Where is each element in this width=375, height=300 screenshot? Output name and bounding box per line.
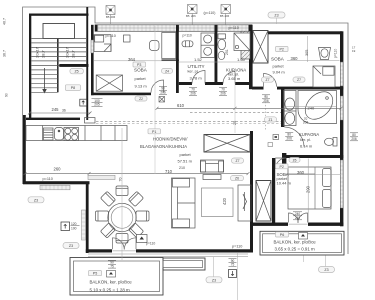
svg-text:245: 245	[52, 107, 60, 112]
stacked label kupaona2 inner	[303, 117, 309, 125]
wall living bottom left segment	[86, 249, 112, 252]
side table living	[203, 175, 221, 180]
TV board living	[238, 185, 251, 221]
svg-text:parket: parket	[180, 152, 192, 157]
svg-text:6.14 m: 6.14 m	[300, 144, 313, 149]
stacked label below living	[229, 259, 237, 267]
wall corridor top (under utility+bath1)	[179, 82, 192, 85]
wall soba3 bottom	[250, 223, 288, 226]
sofa living	[172, 178, 196, 228]
svg-text:28,7: 28,7	[41, 49, 46, 58]
vestibule wall	[59, 64, 88, 67]
svg-text:SOBA: SOBA	[271, 57, 285, 62]
washbasins kupaona2	[284, 91, 297, 126]
bed soba3	[288, 167, 331, 209]
kitchen sink	[55, 128, 64, 141]
door soba3 top entry	[275, 158, 286, 169]
svg-text:Z6: Z6	[235, 177, 239, 181]
marker box dining door	[137, 235, 148, 243]
marker Z6 soba3	[289, 158, 300, 163]
svg-text:251: 251	[225, 49, 229, 55]
threshold lines in door gaps	[113, 224, 308, 251]
dining chairs	[96, 186, 150, 243]
toilet bath1	[218, 34, 226, 50]
extension line dining vertical	[121, 128, 123, 260]
wall right exterior with windows	[340, 31, 343, 226]
svg-text:HODNIK/DNEVNI/: HODNIK/DNEVNI/	[153, 136, 188, 141]
svg-text:20x17: 20x17	[65, 46, 70, 58]
marker Z7 corridor pair	[262, 77, 306, 82]
svg-text:parket: parket	[135, 76, 147, 81]
label balkon left	[89, 271, 133, 293]
balcony right	[260, 231, 344, 255]
svg-text:UTILITY: UTILITY	[188, 64, 205, 69]
svg-text:Z7: Z7	[297, 78, 301, 82]
toilet kupaona2	[325, 138, 338, 147]
dining table	[108, 203, 136, 231]
svg-text:Z4: Z4	[165, 69, 169, 73]
stair treads upper both flights	[31, 38, 86, 65]
corner bathtub kupaona2	[298, 86, 338, 124]
extension line Z3 top	[276, 18, 278, 24]
marker Z3 left	[28, 197, 44, 203]
svg-text:90: 90	[5, 93, 9, 97]
svg-text:206: 206	[190, 92, 196, 96]
svg-text:P8: P8	[71, 86, 75, 90]
label kupaona2	[299, 106, 319, 149]
svg-text:p=110: p=110	[106, 34, 116, 38]
svg-text:120: 120	[71, 222, 77, 226]
wall bedroom1 bottom	[91, 93, 151, 96]
svg-text:(p=110): (p=110)	[204, 11, 216, 15]
svg-text:205: 205	[94, 103, 100, 107]
svg-text:305: 305	[305, 50, 309, 56]
label balkon right	[274, 232, 317, 252]
label kupaona1	[226, 67, 246, 80]
svg-text:Z3: Z3	[34, 198, 38, 202]
svg-text:420: 420	[222, 197, 227, 205]
svg-text:B5: B5	[220, 14, 224, 18]
marker P8 vestibule	[65, 85, 80, 91]
svg-text:28,7: 28,7	[71, 49, 76, 58]
wardrobe soba2	[253, 31, 268, 64]
svg-text:P2: P2	[279, 48, 283, 52]
chimney symbol 3	[221, 5, 231, 26]
wall stair-block top	[29, 14, 89, 16]
label soba2	[271, 47, 298, 75]
svg-text:Z6: Z6	[293, 158, 297, 162]
marker Z5 vestibule	[70, 68, 84, 73]
window hatch on dining left wall	[82, 210, 86, 240]
svg-text:P5: P5	[93, 272, 97, 276]
marker box kupaona2 door corridor	[273, 135, 279, 140]
wall kupaona2 bottom / soba3 top	[284, 155, 343, 158]
svg-text:p=110: p=110	[183, 34, 192, 38]
svg-text:1.65: 1.65	[237, 57, 246, 62]
svg-text:10.44 m: 10.44 m	[277, 180, 292, 185]
kitchen fridge hatched	[44, 128, 54, 140]
door soba2	[264, 74, 277, 87]
bed soba2	[313, 66, 335, 87]
step marker left 120/100	[61, 222, 80, 231]
svg-text:p=110: p=110	[334, 49, 338, 58]
dim line kupaona2 240	[284, 106, 336, 108]
door size labels corridor	[159, 86, 358, 220]
stair middle wall	[57, 39, 59, 93]
balcony left shallow wing	[163, 258, 205, 270]
balcony door living double	[113, 238, 137, 250]
svg-text:p=110: p=110	[229, 26, 239, 30]
svg-text:P6: P6	[280, 233, 284, 237]
svg-text:19: 19	[352, 49, 356, 53]
wall soba2 bottom	[252, 87, 264, 90]
sill lines below living bottom wall	[88, 254, 248, 257]
svg-text:BLAGAVAONA/KUHINJA: BLAGAVAONA/KUHINJA	[140, 144, 187, 149]
wall left of dining (lower)	[86, 184, 89, 254]
svg-text:240: 240	[295, 216, 301, 220]
outer thin boundary	[23, 7, 348, 254]
svg-text:Z7: Z7	[266, 78, 270, 82]
svg-text:Z7: Z7	[236, 159, 240, 163]
svg-text:3.65 x 0.25 = 0.91 m: 3.65 x 0.25 = 0.91 m	[275, 247, 315, 252]
internal dim lines	[94, 36, 341, 222]
svg-text:360: 360	[297, 170, 305, 175]
svg-text:Z3: Z3	[69, 244, 73, 248]
wall bottom-left with window	[23, 181, 90, 184]
svg-text:B5: B5	[106, 15, 110, 19]
svg-text:206: 206	[303, 121, 309, 125]
wall utility left	[176, 25, 179, 93]
top window band x95-252	[95, 25, 252, 32]
label soba1	[128, 57, 148, 89]
svg-text:40.7: 40.7	[3, 18, 7, 25]
wall stair-block right	[86, 7, 88, 120]
dashed ceiling line short	[190, 112, 281, 114]
svg-text:KUPAONA: KUPAONA	[299, 132, 319, 137]
svg-text:206: 206	[225, 14, 230, 18]
door bath1	[223, 72, 235, 84]
svg-text:Z2: Z2	[139, 97, 143, 101]
svg-text:1.52: 1.52	[194, 57, 203, 62]
svg-text:210: 210	[179, 166, 185, 170]
svg-text:36.7: 36.7	[3, 50, 7, 57]
wall entry door recess	[85, 118, 96, 123]
svg-text:240: 240	[308, 106, 315, 111]
shower bath1	[234, 33, 250, 51]
marker Z1 corridor	[265, 117, 277, 122]
svg-text:206: 206	[191, 14, 196, 18]
svg-text:20x17: 20x17	[35, 46, 40, 58]
svg-text:360: 360	[291, 56, 299, 61]
door kupaona2	[284, 127, 304, 147]
svg-text:P2: P2	[279, 165, 283, 169]
svg-text:206: 206	[287, 137, 293, 141]
closet soba1 niche	[162, 33, 176, 59]
svg-text:9.13 m: 9.13 m	[135, 84, 148, 89]
balcony left outer	[70, 258, 163, 296]
wall kupaona2 left	[281, 90, 284, 128]
svg-text:BALKON, ker. pločice: BALKON, ker. pločice	[274, 239, 317, 244]
svg-text:Z5: Z5	[74, 70, 78, 74]
label utility	[188, 57, 246, 80]
nightstand soba1	[124, 35, 131, 42]
stacked label balcony left door	[108, 260, 116, 268]
step marker below living	[229, 270, 237, 278]
dim line hall 245	[28, 112, 92, 115]
door soba1	[151, 80, 164, 93]
wall utility/bath1	[215, 25, 218, 85]
stair down arrow	[44, 68, 46, 89]
chimney symbol 1	[106, 6, 115, 25]
entry door step symbol	[80, 99, 87, 106]
wardrobe soba1	[96, 75, 122, 91]
svg-text:36: 36	[62, 109, 66, 113]
svg-text:SOBA: SOBA	[134, 68, 148, 73]
washer-dryer utility	[201, 33, 215, 58]
balcony door soba3 double	[289, 213, 308, 223]
svg-text:BALKON, ker. pločice: BALKON, ker. pločice	[90, 280, 133, 285]
door utility	[192, 71, 205, 84]
wall stair-block bottom (entry hall)	[26, 118, 80, 120]
wall bedroom1 left	[91, 25, 94, 95]
bed soba1	[94, 35, 111, 52]
svg-text:3.65 m: 3.65 m	[228, 76, 241, 81]
svg-text:p=110: p=110	[146, 241, 155, 245]
wall soba3 left	[272, 158, 275, 223]
svg-text:206: 206	[160, 91, 166, 95]
armchair living	[201, 160, 224, 172]
wall living bottom right segment	[136, 249, 251, 252]
wall living right (to balcony corner)	[250, 131, 253, 253]
svg-text:p=110: p=110	[43, 177, 53, 181]
svg-text:ker. pl.: ker. pl.	[300, 138, 311, 142]
washbasin bath1	[218, 51, 225, 59]
svg-text:206: 206	[351, 137, 357, 141]
marker Z7 living	[232, 158, 244, 163]
svg-text:260: 260	[54, 166, 62, 171]
svg-text:100: 100	[71, 227, 77, 231]
marker Z6 living	[231, 176, 244, 181]
svg-text:75: 75	[231, 263, 235, 267]
washbasin soba2	[319, 48, 331, 60]
marker Z2 hall	[135, 96, 147, 101]
window sill bottom-left outside	[40, 185, 70, 190]
entry door size label 100/205	[92, 98, 103, 106]
carpet living	[202, 188, 234, 217]
label soba3	[276, 164, 311, 193]
svg-text:Z3: Z3	[212, 278, 216, 282]
svg-text:57.51 m: 57.51 m	[178, 159, 193, 164]
svg-text:290: 290	[306, 185, 311, 193]
svg-text:75: 75	[110, 264, 114, 268]
svg-text:P3: P3	[137, 63, 141, 67]
shaft hatched pier	[241, 31, 250, 59]
boiler utility	[182, 41, 193, 47]
svg-text:ker. pl.: ker. pl.	[188, 70, 199, 74]
window parapet band right of corner	[88, 175, 115, 179]
stair upper landing outline	[43, 24, 75, 39]
kitchen stove	[64, 128, 79, 141]
svg-text:3.78 m: 3.78 m	[190, 75, 203, 80]
label hodnik living	[140, 129, 193, 164]
svg-text:206: 206	[111, 15, 116, 19]
wall bath1 right / soba2 left	[249, 25, 253, 89]
extension line x155 vertical	[154, 26, 156, 174]
shaft box hall	[159, 97, 165, 103]
svg-text:206: 206	[263, 99, 269, 103]
svg-text:5.10 x 0.25 = 1.28 m: 5.10 x 0.25 = 1.28 m	[90, 288, 130, 293]
svg-text:B5: B5	[186, 14, 190, 18]
svg-text:Z1: Z1	[269, 118, 273, 122]
svg-text:610: 610	[177, 103, 185, 108]
dim line 260+710	[24, 172, 250, 175]
closet hodnik big	[204, 135, 250, 153]
svg-text:206: 206	[220, 92, 226, 96]
extension lines below bottom	[214, 253, 326, 300]
wall top right section	[252, 31, 342, 34]
marker Z3 bottom mid	[206, 277, 222, 283]
svg-text:710: 710	[165, 169, 173, 174]
marker Z3 top	[268, 12, 285, 18]
svg-text:parket: parket	[273, 63, 285, 68]
svg-text:9.04 m: 9.04 m	[273, 69, 286, 74]
chimney symbol 2	[188, 5, 198, 26]
svg-text:364: 364	[128, 57, 136, 62]
wardrobe soba3 (hodnik niche)	[256, 181, 271, 222]
kitchen counter	[26, 126, 127, 141]
marker Z3 bottom right	[319, 267, 335, 273]
marker Z3 bottom left	[63, 243, 79, 249]
dashed ceiling line long	[96, 121, 281, 123]
stair treads lower-left flight	[31, 70, 58, 92]
dim line corridor 610	[156, 107, 343, 110]
wall left exterior lower	[23, 115, 26, 184]
svg-text:Z3: Z3	[324, 268, 328, 272]
closet niche line	[162, 60, 179, 62]
svg-text:p=110: p=110	[232, 245, 242, 249]
svg-text:P1: P1	[152, 130, 156, 134]
svg-text:70: 70	[119, 178, 123, 182]
corridor extras	[233, 80, 273, 147]
svg-text:Z3: Z3	[274, 14, 278, 18]
desk chair soba1	[150, 41, 160, 51]
wall stair-block left	[29, 14, 31, 121]
